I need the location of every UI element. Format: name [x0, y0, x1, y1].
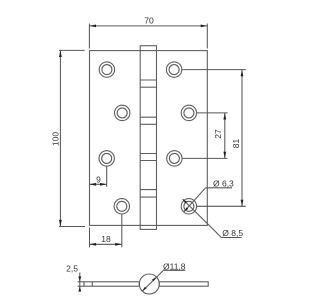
leader dia 8,5	[183, 199, 222, 237]
leaf tick	[91, 282, 93, 286]
dim 100 ext bottom	[59, 226, 85, 228]
arrow leader 6,3 tip	[184, 207, 188, 211]
svg-text:81: 81	[231, 139, 241, 149]
svg-text:Ø 8,5: Ø 8,5	[222, 228, 243, 238]
arrow 9 right	[100, 183, 107, 186]
arrows (filled)	[59, 25, 243, 246]
svg-text:2,5: 2,5	[66, 263, 78, 273]
knuckle joint line 3a	[140, 153, 156, 155]
dim 70 line	[89, 25, 207, 27]
knuckle joint line 3b	[140, 160, 156, 162]
dim 70 ext right	[206, 24, 208, 49]
arrow 2,5 top	[78, 276, 81, 281]
knuckle joint line 2a	[140, 116, 156, 118]
hole R1	[166, 62, 181, 77]
dim 81 ext bottom (from hole R4)	[197, 205, 246, 207]
knuckle joint line 1b	[140, 86, 156, 88]
leader dia 11,8 underline	[164, 269, 186, 271]
leader dia 6,3	[184, 188, 206, 212]
dim 18 ext right (from hole L4)	[121, 214, 123, 247]
dim 9 line	[90, 183, 107, 185]
leader dia 8,5 underline	[221, 237, 241, 239]
dim 100 ext top	[59, 49, 85, 51]
arrow 18 left	[90, 243, 97, 246]
svg-text:Ø 6,3: Ø 6,3	[213, 178, 234, 188]
hinge leaf plate	[90, 51, 208, 226]
dim 9 ext (from hole L3)	[106, 166, 108, 187]
arrow 100 bottom	[59, 220, 62, 227]
arrow 70 right	[201, 25, 208, 28]
dim 18 line	[90, 243, 122, 245]
arrow 100 top	[59, 50, 62, 57]
knuckle joint line 4b	[140, 196, 156, 198]
hole L3	[99, 151, 114, 166]
arrow 27 top	[223, 113, 226, 120]
dim 2,5 ext bottom	[78, 285, 85, 287]
arrow 70 left	[89, 25, 96, 28]
arrow 27 bottom	[223, 152, 226, 159]
leader dia 11,8	[142, 270, 163, 291]
arrow 18 right	[115, 243, 122, 246]
dim 18 ext left	[89, 228, 91, 248]
leaf bar right segment	[159, 282, 208, 286]
svg-text:9: 9	[96, 174, 101, 184]
knuckle joint line 4a	[140, 189, 156, 191]
arrow 2,5 bottom	[78, 286, 81, 291]
hole L4	[114, 199, 129, 214]
dim 2,5 ext top	[78, 281, 85, 283]
arrow 9 left	[90, 183, 97, 186]
dim 2,5 line	[79, 273, 81, 291]
leader dia 6,3 underline	[206, 187, 232, 189]
dim 81 ext top (from hole R1)	[182, 69, 246, 71]
knuckle joint line 2b	[140, 123, 156, 125]
knuckle joint line 1a	[140, 79, 156, 81]
svg-text:Ø11,8: Ø11,8	[163, 261, 186, 271]
dim 100 line	[59, 50, 61, 226]
arrow leader 8,5 tip	[183, 199, 187, 203]
arrow 81 top	[241, 70, 244, 77]
dim 70 ext left	[88, 24, 90, 49]
dim 27 ext bottom (from hole R3)	[183, 157, 228, 159]
dim 81 line	[241, 70, 243, 207]
dim 27 ext top (from hole R2)	[197, 112, 228, 114]
svg-text:70: 70	[144, 15, 154, 25]
hole L1	[99, 62, 114, 77]
arrow 11,8 lower	[142, 287, 146, 291]
hinge barrel	[140, 46, 156, 230]
hole R2	[181, 105, 196, 120]
dim 27 line	[224, 113, 226, 158]
svg-text:18: 18	[101, 234, 111, 244]
arrow 11,8 upper	[152, 277, 156, 281]
svg-text:27: 27	[213, 129, 223, 139]
hole R3	[167, 151, 182, 166]
arrow 81 bottom	[241, 200, 244, 207]
barrel circle	[139, 274, 159, 294]
hole R4	[181, 199, 196, 214]
svg-text:100: 100	[51, 132, 61, 146]
leaf bar left segment	[84, 282, 139, 286]
hole L2	[115, 105, 130, 120]
